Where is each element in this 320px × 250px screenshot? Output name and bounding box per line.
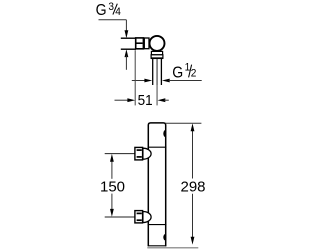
upper supply centerline: [105, 153, 136, 155]
51 dimension: left arrow: [115, 99, 129, 101]
298 extension line from bar top: [165, 122, 201, 124]
svg-text:150: 150: [100, 179, 125, 196]
pipe centerline extension: [156, 59, 158, 85]
51 dimension: right arrow: [158, 98, 166, 102]
supply pipe stub G3/4 (top view): [121, 38, 136, 49]
svg-text:3: 3: [108, 1, 114, 14]
union nut block: [136, 38, 144, 49]
valve body circle: [150, 36, 165, 51]
upper knob arc on right edge: [163, 130, 165, 137]
lower knob arc on right edge: [163, 234, 165, 241]
298 dimension line: [192, 130, 194, 237]
svg-text:2: 2: [191, 67, 197, 80]
G1/2 dimension: left arrow to pipe: [132, 80, 146, 82]
upper connection dome: [143, 148, 151, 159]
lower seam line: [148, 224, 167, 226]
arrow up to pipe bottom: [125, 49, 129, 57]
150 dimension line: [111, 161, 113, 210]
150 arrow down: [110, 209, 114, 217]
lower connection nut: [135, 211, 143, 223]
label G 1/2: [172, 61, 196, 82]
svg-text:51: 51: [138, 92, 153, 109]
leader line from G3/4 to pipe top: [99, 20, 127, 37]
upper connection nut: [135, 147, 143, 160]
svg-text:4: 4: [115, 6, 121, 19]
svg-text:G: G: [172, 64, 183, 82]
thermostat bar body: [148, 123, 165, 246]
ground reference line (grey): [147, 247, 198, 249]
lower supply centerline: [105, 216, 136, 218]
collar bands below valve body: [151, 51, 163, 58]
label G 3/4: [96, 1, 121, 20]
298 arrow down: [191, 237, 195, 245]
shower pipe (vertical, cut): [153, 59, 162, 85]
lower connection dome: [143, 211, 151, 222]
arrow down to pipe top: [125, 30, 129, 38]
svg-text:G: G: [96, 1, 107, 19]
neck band between nut and valve body: [144, 38, 149, 49]
G1/2 dimension: right arrow + leader under label: [162, 79, 170, 83]
svg-text:298: 298: [181, 178, 206, 195]
51 dimension: left extension line (nut face): [134, 50, 136, 105]
150 arrow up: [110, 154, 114, 162]
298 arrow up: [191, 123, 195, 131]
upper seam line: [148, 146, 167, 148]
